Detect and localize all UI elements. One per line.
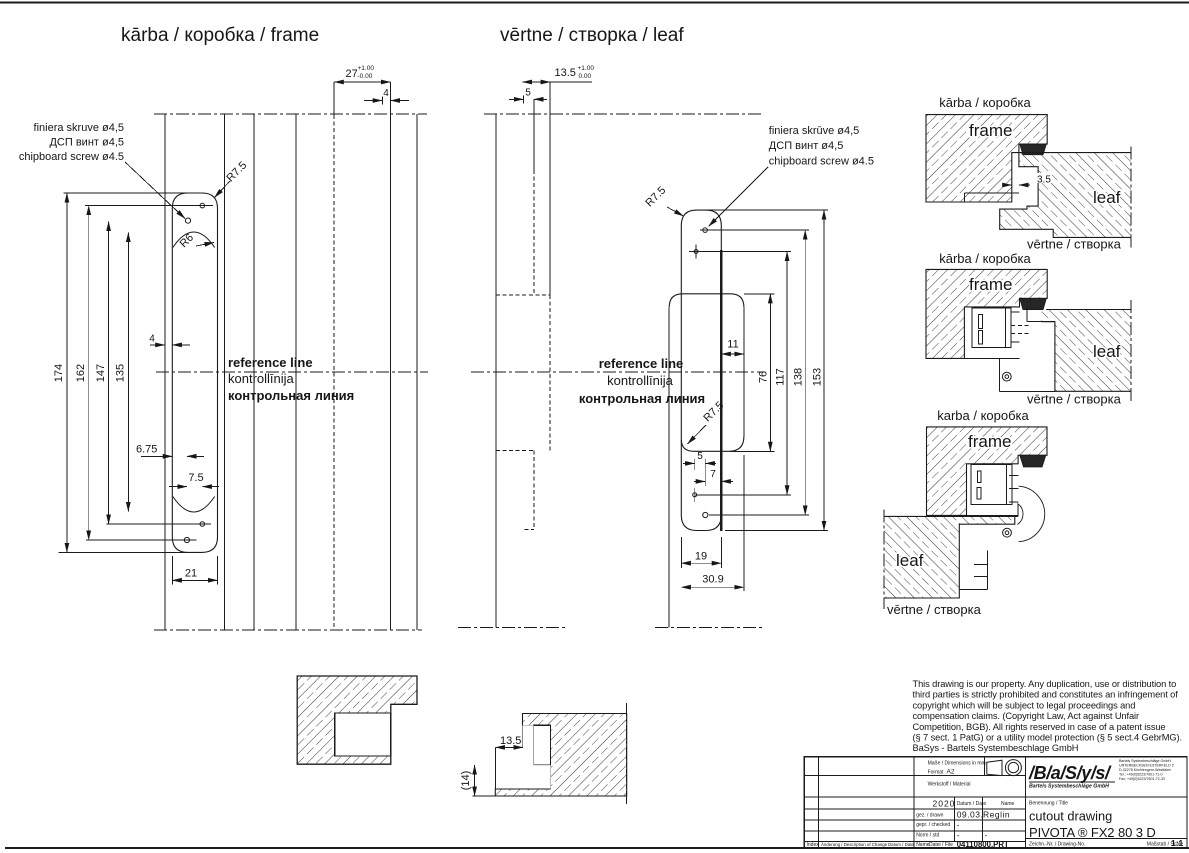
dimension 7.5 <box>169 486 187 488</box>
svg-text:compensation claims. (Copyrigh: compensation claims. (Copyright Law, Act… <box>913 711 1140 721</box>
svg-text:chipboard screw ø4.5: chipboard screw ø4.5 <box>769 156 874 168</box>
svg-text:135: 135 <box>115 364 127 382</box>
pocket arc top R6 <box>173 232 215 248</box>
hinge body 3 <box>971 464 1012 504</box>
svg-text:0.00: 0.00 <box>579 73 592 80</box>
frame pocket bottom line 2 <box>964 357 1019 359</box>
svg-text:27: 27 <box>346 68 358 80</box>
svg-text:-: - <box>957 831 960 840</box>
extension line bottom hole right <box>107 523 211 525</box>
extension line plate bottom <box>58 551 201 553</box>
svg-text:R7.5: R7.5 <box>643 184 668 209</box>
svg-text:kārba / коробка: kārba / коробка <box>939 95 1031 110</box>
svg-text:Benennung / Title: Benennung / Title <box>1029 801 1068 807</box>
svg-text:Tel.: +49(0)5223/7601-71-0: Tel.: +49(0)5223/7601-71-0 <box>1119 773 1162 777</box>
svg-text:11: 11 <box>727 339 738 351</box>
svg-text:30.9: 30.9 <box>702 574 723 586</box>
svg-text:Format: Format <box>928 770 944 776</box>
svg-text:04110800.PRT: 04110800.PRT <box>957 840 1009 849</box>
chain line bottom <box>154 629 422 631</box>
svg-text:vērtne / створка: vērtne / створка <box>1027 392 1122 407</box>
leaf top edge line 2 <box>1046 309 1131 311</box>
frame profile A <box>297 676 417 764</box>
leaf cutout 2 <box>1027 321 1055 323</box>
dimension 27 with tolerance <box>334 81 390 83</box>
svg-text:Datei / File: Datei / File <box>929 842 953 848</box>
extension crosshair top to 117 <box>696 251 791 253</box>
svg-text:Maße / Dimensions in mm: Maße / Dimensions in mm <box>928 761 986 767</box>
reference chain line <box>156 371 428 373</box>
hinge cap 2 <box>1020 298 1046 309</box>
frame rebate step 1 <box>964 192 1019 194</box>
chain line bottom right <box>655 627 763 629</box>
frame section line g <box>416 114 418 630</box>
leaf screw hole top with centerline <box>703 228 708 233</box>
left block divider <box>913 757 915 848</box>
dimension (14) B <box>474 765 476 796</box>
svg-text:Datum / Date: Datum / Date <box>957 801 987 807</box>
dimension 3.5 <box>1036 173 1052 183</box>
dimension 7 bottom <box>694 480 705 482</box>
svg-text:Änderung / Description of Chan: Änderung / Description of Change <box>821 842 888 847</box>
hidden line e <box>333 82 335 115</box>
leaf edge line <box>495 114 497 628</box>
svg-text:BaSys - Bartels Systembeschlag: BaSys - Bartels Systembeschlage GmbH <box>913 743 1079 753</box>
pocket right edge <box>743 307 745 436</box>
dimension 4 left <box>150 344 165 346</box>
dimension 13.5 with tolerance <box>522 81 550 83</box>
dimension 19 <box>680 537 682 568</box>
frame section line c <box>253 114 255 630</box>
svg-text:vērtne / створка: vērtne / створка <box>887 602 982 617</box>
svg-text:PIVOTA ® FX2 80 3 D: PIVOTA ® FX2 80 3 D <box>1029 825 1156 840</box>
chain line bottom left <box>458 627 566 629</box>
hinge cap 3 <box>1020 455 1046 467</box>
frame block 1 <box>926 115 1047 202</box>
svg-text:chipboard screw ø4.5: chipboard screw ø4.5 <box>19 151 124 163</box>
svg-text:5: 5 <box>697 451 703 462</box>
svg-text:+1.00: +1.00 <box>578 65 595 72</box>
svg-text:117: 117 <box>774 368 786 386</box>
dimension 13.5 B <box>495 746 523 748</box>
extension pocket top to 76 <box>744 293 775 295</box>
svg-text:Zeichn.-Nr. / Drawing-No.: Zeichn.-Nr. / Drawing-No. <box>1029 842 1085 848</box>
leaf lip line <box>549 82 551 295</box>
dimension 5 top <box>509 98 523 100</box>
dimension 21 <box>171 556 173 585</box>
svg-text:Name: Name <box>916 842 930 848</box>
dimension 153 <box>823 210 825 530</box>
hidden cutout ledge bottom <box>496 449 534 451</box>
pivot arc big 3 <box>1019 486 1045 542</box>
screw hole bottom left <box>184 537 189 542</box>
reference chain line <box>471 371 763 373</box>
hidden cutout step <box>533 450 535 529</box>
frame section line f <box>389 82 391 630</box>
baseline B <box>473 795 627 797</box>
pocket left edge long <box>668 307 670 627</box>
pocket B <box>534 725 551 765</box>
svg-text:138: 138 <box>793 368 805 386</box>
chain line top <box>154 113 427 115</box>
svg-text:frame: frame <box>969 275 1012 294</box>
svg-text:kontrollīnija: kontrollīnija <box>607 373 674 388</box>
leaf plate outline <box>681 210 721 530</box>
chain line B <box>626 703 628 806</box>
extension hole top to 138 <box>700 229 809 231</box>
dimension 174 <box>66 193 68 552</box>
svg-text:5: 5 <box>525 88 531 99</box>
dimension 162 <box>88 206 90 540</box>
svg-text:+1.00: +1.00 <box>358 65 375 72</box>
leaf crosshair hole top <box>694 250 698 254</box>
dimension 4 top <box>364 100 382 102</box>
frame section line a <box>164 114 166 630</box>
extension plate top to 153 <box>706 209 828 211</box>
svg-text:Index: Index <box>807 842 820 848</box>
svg-text:gepr. / checked: gepr. / checked <box>916 822 950 828</box>
svg-text:leaf: leaf <box>1093 188 1121 207</box>
page border top <box>0 2 1189 4</box>
frame section line d <box>295 114 297 630</box>
svg-text:kontrollīnija: kontrollīnija <box>228 371 295 386</box>
svg-text:UNTERBECKSEN ESTERFELD 2: UNTERBECKSEN ESTERFELD 2 <box>1119 764 1174 768</box>
svg-text:(14): (14) <box>460 771 472 791</box>
leaf pivot corner 3 <box>1015 515 1018 517</box>
revision table lines <box>804 775 1025 777</box>
screw hole top left <box>185 218 190 223</box>
extension plate bottom to 153 <box>725 530 828 532</box>
svg-text:A2: A2 <box>947 769 955 776</box>
dimension 30.9 <box>743 455 745 591</box>
hidden cutout ledge top <box>496 294 550 296</box>
hinge cap 1 <box>1020 144 1046 155</box>
svg-text:copyright which will be subjec: copyright which will be subject to legal… <box>913 700 1136 710</box>
svg-text:vērtne / створка: vērtne / створка <box>1027 237 1122 252</box>
svg-text:This drawing is our property.: This drawing is our property. Any duplic… <box>913 679 1177 689</box>
leaf block 3 <box>884 516 1015 598</box>
svg-text:контрольная линия: контрольная линия <box>579 391 705 406</box>
frame pocket bottom line 3 <box>967 514 1019 516</box>
dimension 138 <box>804 230 806 515</box>
svg-text:контрольная линия: контрольная линия <box>228 388 354 403</box>
svg-text:ДСП винт ø4,5: ДСП винт ø4,5 <box>49 137 124 149</box>
middle block dividers <box>984 757 986 776</box>
leaf block 1 <box>1000 153 1131 238</box>
pocket bottom <box>681 436 744 451</box>
hinge body 2 <box>972 308 1011 347</box>
frame block 3 <box>927 427 1048 516</box>
svg-text:-0.00: -0.00 <box>358 73 373 80</box>
chain line top <box>484 113 763 115</box>
svg-text:third parties is strictly proh: third parties is strictly prohibited and… <box>913 690 1179 700</box>
pivot arc small 3 <box>1017 504 1023 525</box>
cutout window A <box>335 713 391 756</box>
svg-text:gez. / drawn: gez. / drawn <box>916 813 943 819</box>
svg-text:76: 76 <box>758 371 770 383</box>
svg-text:147: 147 <box>95 364 107 382</box>
svg-text:6.75: 6.75 <box>136 444 157 456</box>
leaf notch lines 3 <box>959 588 987 590</box>
extension pocket bottom to 76 <box>730 450 775 452</box>
frame block 2 <box>926 269 1047 358</box>
svg-text:Datum / Date: Datum / Date <box>888 842 914 847</box>
svg-text:2020: 2020 <box>933 799 956 809</box>
cutout plate outline <box>172 193 217 552</box>
dimension 6.75 <box>141 455 172 457</box>
svg-text:frame: frame <box>968 432 1011 451</box>
screw hole bottom right with centerline <box>200 522 205 527</box>
dimension 147 <box>108 222 110 525</box>
page border bottom <box>5 847 1189 849</box>
pocket outline top <box>669 294 744 308</box>
svg-text:cutout drawing: cutout drawing <box>1029 809 1112 824</box>
svg-text:09.03.: 09.03. <box>957 810 984 820</box>
svg-text:Reglin: Reglin <box>983 810 1010 820</box>
copyright screw symbol 3 <box>1003 528 1012 537</box>
svg-text:7.5: 7.5 <box>188 472 203 484</box>
svg-text:reference line: reference line <box>228 355 313 370</box>
svg-text:Bartels Systembeschläge GmbH: Bartels Systembeschläge GmbH <box>1029 784 1109 790</box>
svg-text:R7.5: R7.5 <box>701 399 726 424</box>
svg-text:finiera skruve ø4,5: finiera skruve ø4,5 <box>34 122 124 134</box>
svg-text:Norm / std: Norm / std <box>916 832 939 838</box>
svg-text:Name: Name <box>1001 801 1015 807</box>
projection symbol <box>987 760 1002 775</box>
svg-text:162: 162 <box>75 364 87 382</box>
pocket arc bottom R6 <box>173 497 215 513</box>
frame section line b <box>224 114 226 630</box>
dimension 11 <box>721 353 744 355</box>
address block <box>1119 759 1174 781</box>
leaf plate bold edge <box>720 250 722 531</box>
cell texts middle <box>807 761 1015 848</box>
extension hole bottom to 138 <box>709 514 809 516</box>
svg-text:/B/a/S/y/s/: /B/a/S/y/s/ <box>1028 763 1112 783</box>
svg-text:kārba / коробка / frame: kārba / коробка / frame <box>121 25 319 46</box>
dimension 135 <box>127 233 129 512</box>
svg-text:karba / коробка: karba / коробка <box>937 408 1029 423</box>
svg-text:R6: R6 <box>178 232 196 250</box>
svg-text:153: 153 <box>811 368 823 386</box>
right block divider <box>1026 837 1188 839</box>
leaf screw hole bottom <box>703 512 708 517</box>
svg-text:4: 4 <box>383 88 389 99</box>
pocket lines B <box>523 724 534 726</box>
dimension 76 <box>769 294 771 452</box>
leaf profile B <box>495 714 626 797</box>
hidden cutout line <box>533 99 535 170</box>
screw leader <box>125 162 185 219</box>
leaf crosshair hole bottom <box>693 493 697 497</box>
extension line plate top <box>64 192 204 194</box>
svg-text:leaf: leaf <box>1093 342 1121 361</box>
svg-text:kārba / коробка: kārba / коробка <box>939 251 1031 266</box>
svg-text:-: - <box>957 821 960 830</box>
svg-text:21: 21 <box>185 568 197 580</box>
svg-text:Werkstoff / Material: Werkstoff / Material <box>928 782 971 788</box>
table outline <box>804 757 1187 848</box>
leaf axis chain 1 <box>1130 147 1132 248</box>
screw hole top right with centerline <box>200 203 205 208</box>
svg-text:7: 7 <box>710 469 716 480</box>
extension line bottom hole left <box>86 539 196 541</box>
svg-text:3.5: 3.5 <box>1037 175 1051 186</box>
svg-text:leaf: leaf <box>896 551 924 570</box>
svg-text:13.5: 13.5 <box>500 735 521 747</box>
copyright screw symbol 2 <box>1002 372 1011 381</box>
svg-text:19: 19 <box>695 551 707 563</box>
leaf axis chain 3 <box>883 510 885 609</box>
svg-text:ДСП винт ø4,5: ДСП винт ø4,5 <box>769 140 844 152</box>
extension crosshair bottom to 117 <box>695 494 791 496</box>
svg-text:4: 4 <box>149 334 155 345</box>
svg-text:Fax: +49(0)5223/7601-72-33: Fax: +49(0)5223/7601-72-33 <box>1119 777 1165 781</box>
svg-text:1:1: 1:1 <box>1171 838 1184 848</box>
index column <box>817 757 819 848</box>
extension line top hole right <box>85 205 213 207</box>
svg-text:Competition, BGB). All rights: Competition, BGB). All rights reserved i… <box>913 722 1166 732</box>
svg-text:finiera skrūve ø4,5: finiera skrūve ø4,5 <box>769 125 859 137</box>
svg-text:D-32278 Kirchlengern-Westfalen: D-32278 Kirchlengern-Westfalen <box>1119 768 1171 772</box>
leaf axis chain 2 <box>1130 300 1132 404</box>
dimension 117 <box>786 252 788 495</box>
svg-text:R7.5: R7.5 <box>224 159 249 184</box>
white lower notch B <box>495 725 550 789</box>
screw leader middle <box>709 167 769 227</box>
svg-text:13.5: 13.5 <box>555 67 576 79</box>
svg-text:reference line: reference line <box>599 356 684 371</box>
svg-text:-: - <box>985 831 988 840</box>
svg-text:vērtne / створка / leaf: vērtne / створка / leaf <box>500 25 684 46</box>
svg-text:174: 174 <box>53 364 65 382</box>
BaSys logo <box>1028 763 1112 790</box>
leaf block 2 <box>1041 310 1131 392</box>
svg-text:frame: frame <box>969 121 1012 140</box>
svg-text:Bartels Systembeschläge GmbH: Bartels Systembeschläge GmbH <box>1119 759 1171 763</box>
dimension 5 bottom <box>683 462 695 464</box>
svg-text:(§ 7 sect. 1 PatG) or a utilit: (§ 7 sect. 1 PatG) or a utility model pr… <box>913 733 1183 743</box>
